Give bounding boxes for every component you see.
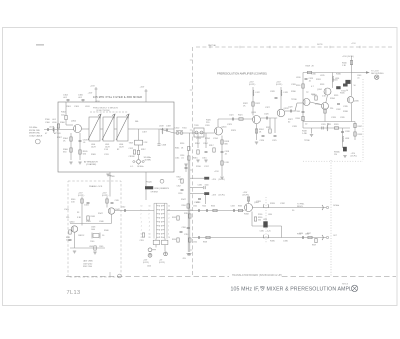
svg-text:C345: C345	[260, 231, 264, 233]
svg-text:R322: R322	[256, 103, 261, 105]
svg-text:C351: C351	[184, 234, 190, 236]
svg-text:C325: C325	[272, 140, 277, 142]
svg-text:C320: C320	[205, 125, 210, 127]
svg-text:LAST USED: LAST USED	[83, 260, 94, 263]
svg-text:C352: C352	[193, 206, 197, 208]
svg-text:C328: C328	[292, 126, 298, 128]
svg-text:C330: C330	[311, 74, 317, 76]
svg-text:R301: R301	[66, 106, 72, 108]
svg-text:R350: R350	[182, 205, 186, 207]
svg-text:R330: R330	[296, 85, 300, 87]
svg-text:R346: R346	[104, 230, 109, 232]
svg-text:(3 SECTIONS): (3 SECTIONS)	[96, 110, 110, 112]
svg-text:ATTENUATOR: ATTENUATOR	[84, 160, 98, 163]
svg-text:5: 5	[168, 234, 169, 236]
svg-text:C341: C341	[84, 205, 90, 207]
svg-text:10: 10	[168, 237, 170, 239]
svg-text:33: 33	[77, 212, 80, 214]
svg-text:C314: C314	[203, 143, 208, 145]
svg-text:L338: L338	[345, 138, 349, 140]
svg-text:+15V: +15V	[140, 87, 145, 89]
svg-text:50: 50	[354, 85, 356, 87]
svg-text:R330: R330	[291, 91, 297, 93]
svg-text:10: 10	[149, 206, 151, 208]
svg-text:REV A: REV A	[342, 283, 349, 286]
svg-text:220: 220	[330, 108, 333, 110]
svg-text:C327: C327	[265, 107, 271, 109]
svg-text:R348: R348	[91, 216, 95, 218]
svg-text:L330: L330	[296, 77, 301, 79]
svg-text:C334: C334	[296, 111, 300, 113]
svg-text:COAX CABLE: COAX CABLE	[29, 134, 43, 137]
svg-text:C328: C328	[270, 91, 275, 93]
svg-text:R315: R315	[193, 158, 198, 160]
svg-text:(DCPL): (DCPL)	[249, 84, 256, 86]
svg-text:FROM 2ND: FROM 2ND	[29, 130, 40, 132]
svg-text:(DCPL): (DCPL)	[243, 195, 250, 197]
svg-text:TP: TP	[306, 92, 309, 94]
svg-text:(DCPL): (DCPL)	[219, 195, 226, 197]
svg-text:(DCPL): (DCPL)	[159, 262, 165, 264]
svg-text:+15V: +15V	[212, 179, 217, 181]
svg-text:ATTEN: ATTEN	[54, 132, 61, 135]
svg-text:R345: R345	[340, 93, 345, 95]
svg-text:L308: L308	[159, 126, 164, 128]
svg-text:1K: 1K	[243, 106, 246, 108]
svg-text:R316: R316	[180, 143, 184, 145]
svg-text:R337: R337	[358, 126, 363, 128]
svg-text:10: 10	[102, 235, 105, 237]
svg-text:R358: R358	[203, 242, 207, 244]
svg-text:2: 2	[141, 214, 142, 216]
svg-text:.001: .001	[78, 97, 83, 99]
svg-text:C326: C326	[264, 114, 269, 116]
svg-text:Q302: Q302	[71, 121, 77, 123]
svg-text:C317: C317	[204, 166, 210, 168]
svg-text:.2: .2	[149, 226, 150, 228]
svg-text:T308: T308	[129, 143, 133, 145]
svg-text:+15V: +15V	[88, 93, 93, 95]
svg-text:.01: .01	[309, 81, 312, 83]
svg-text:C311: C311	[104, 154, 110, 156]
svg-text:1K: 1K	[259, 132, 262, 134]
svg-text:C316: C316	[180, 155, 184, 157]
svg-text:C307: C307	[142, 132, 148, 134]
svg-text:C324: C324	[260, 140, 265, 142]
svg-text:L318: L318	[225, 162, 229, 164]
svg-text:1.43K: 1.43K	[302, 133, 308, 135]
svg-text:+15V: +15V	[212, 195, 217, 197]
svg-text:R311: R311	[175, 148, 179, 150]
svg-text:2.2K: 2.2K	[144, 142, 149, 144]
svg-text:620: 620	[83, 154, 87, 156]
svg-text:1: 1	[149, 218, 150, 220]
svg-text:1000: 1000	[205, 184, 209, 186]
svg-text:C333: C333	[231, 206, 235, 208]
svg-text:2K: 2K	[312, 66, 315, 68]
svg-text:C354: C354	[193, 242, 197, 244]
svg-text:R359: R359	[312, 245, 316, 247]
svg-text:C342: C342	[121, 207, 125, 209]
svg-text:(DCPL): (DCPL)	[351, 156, 358, 158]
svg-text:.2: .2	[141, 226, 142, 228]
svg-text:T310: T310	[182, 128, 187, 130]
svg-text:(DCPL): (DCPL)	[143, 262, 149, 264]
svg-text:20: 20	[149, 237, 151, 239]
svg-text:RESOL: RESOL	[297, 206, 303, 208]
svg-text:R353: R353	[172, 217, 176, 219]
svg-text:+15V: +15V	[90, 86, 95, 88]
svg-text:R316: R316	[196, 166, 202, 168]
svg-text:.01: .01	[83, 142, 87, 144]
svg-text:Q336: Q336	[354, 101, 359, 103]
svg-text:220: 220	[206, 122, 210, 124]
svg-text:L328: L328	[284, 92, 288, 94]
svg-text:.01: .01	[181, 158, 184, 160]
svg-text:C300: C300	[45, 122, 51, 124]
svg-text:C343: C343	[64, 209, 70, 211]
svg-text:R347: R347	[98, 213, 104, 215]
svg-text:C314: C314	[213, 138, 219, 140]
svg-text:C313: C313	[196, 138, 202, 140]
svg-text:R352: R352	[177, 177, 181, 179]
svg-text:5-25: 5-25	[267, 231, 271, 233]
svg-text:C338: C338	[345, 131, 350, 133]
svg-text:105 MHz XTAL FILTER & 3RD MIXE: 105 MHz XTAL FILTER & 3RD MIXER	[93, 96, 142, 99]
svg-text:C350: C350	[182, 227, 186, 229]
svg-text:R333: R333	[270, 203, 276, 205]
svg-text:1K: 1K	[63, 141, 66, 143]
svg-text:1.5K: 1.5K	[322, 96, 327, 98]
svg-text:NOTE: NOTE	[317, 44, 323, 46]
svg-text:R333: R333	[238, 206, 242, 208]
svg-text:L322: L322	[256, 92, 260, 94]
svg-text:L.O.: L.O.	[130, 166, 134, 168]
svg-text:1000: 1000	[91, 229, 95, 231]
svg-text:R317: R317	[209, 145, 214, 147]
svg-text:T344: T344	[202, 206, 206, 208]
svg-text:R349 Y340: R349 Y340	[83, 266, 92, 268]
svg-text:+15V: +15V	[178, 179, 183, 181]
svg-text:20: 20	[168, 206, 170, 208]
svg-text:P1020: P1020	[146, 182, 153, 184]
svg-text:L330: L330	[263, 219, 267, 221]
svg-text:C308: C308	[162, 145, 167, 147]
svg-text:MIXER & PRERESOLUTION AMPL: MIXER & PRERESOLUTION AMPL	[267, 287, 353, 293]
svg-text:.01: .01	[225, 154, 228, 156]
svg-text:J334: J334	[305, 234, 309, 236]
svg-text:C337: C337	[312, 95, 317, 97]
svg-text:1.3K: 1.3K	[342, 65, 347, 67]
svg-text:(DCPL): (DCPL)	[78, 195, 85, 197]
svg-text:R309: R309	[91, 154, 97, 156]
svg-text:PARTIAL: PARTIAL	[208, 44, 217, 47]
svg-text:.01: .01	[357, 77, 360, 79]
svg-text:50: 50	[149, 234, 151, 236]
svg-text:5.6K: 5.6K	[71, 202, 75, 204]
svg-text:R354: R354	[172, 239, 176, 241]
svg-text:+15V (DCPL): +15V (DCPL)	[342, 56, 354, 58]
svg-text:10: 10	[346, 90, 348, 92]
svg-text:R314: R314	[195, 143, 200, 145]
svg-text:(DCPL): (DCPL)	[102, 195, 109, 197]
svg-text:2: 2	[149, 214, 150, 216]
svg-text:330: 330	[258, 220, 261, 222]
svg-text:R334: R334	[330, 98, 336, 100]
svg-text:5: 5	[149, 210, 150, 212]
svg-text:OF MHZ: OF MHZ	[151, 192, 159, 194]
svg-text:P334: P334	[297, 234, 301, 236]
svg-text:R332: R332	[244, 214, 250, 216]
svg-text:1N4152: 1N4152	[78, 235, 84, 237]
svg-text:C332: C332	[336, 109, 341, 111]
svg-text:C335: C335	[343, 106, 349, 108]
svg-text:62: 62	[288, 122, 291, 124]
svg-text:.5: .5	[149, 222, 150, 224]
svg-text:R331: R331	[316, 79, 322, 81]
svg-text:R338: R338	[343, 111, 349, 113]
svg-text:105 MHz: 105 MHz	[29, 127, 37, 129]
svg-text:R335: R335	[270, 241, 276, 243]
svg-text:R331: R331	[334, 124, 339, 126]
svg-text:4.7: 4.7	[311, 86, 315, 88]
svg-text:1: 1	[141, 218, 142, 220]
svg-text:1.5K: 1.5K	[104, 149, 109, 151]
svg-text:R307: R307	[57, 137, 63, 139]
svg-text:C309: C309	[166, 126, 172, 128]
svg-text:+15V: +15V	[351, 43, 356, 45]
svg-text:+10 MHz: +10 MHz	[144, 160, 152, 162]
svg-text:C311: C311	[175, 158, 179, 160]
svg-text:47: 47	[45, 133, 48, 135]
svg-text:Y340: Y340	[90, 241, 94, 243]
svg-text:5: 5	[141, 210, 142, 212]
svg-text:TP330: TP330	[291, 99, 297, 101]
svg-text:PRERESOLUTION AMPLIFIER (COA: PRERESOLUTION AMPLIFIER (COARSE)	[217, 72, 267, 76]
svg-text:R336: R336	[336, 74, 342, 76]
svg-text:R300: R300	[60, 122, 66, 124]
svg-text:R335: R335	[334, 95, 338, 97]
svg-text:DECOUPLING: DECOUPLING	[371, 73, 384, 75]
svg-text:R333: R333	[320, 84, 324, 86]
svg-text:C336: C336	[283, 241, 289, 243]
svg-text:C350: C350	[178, 193, 182, 195]
svg-text:7L13: 7L13	[67, 290, 81, 296]
svg-text:330: 330	[63, 152, 67, 154]
svg-text:10: 10	[141, 206, 143, 208]
svg-text:R314: R314	[205, 138, 211, 140]
svg-text:10: 10	[305, 124, 308, 126]
svg-text:Q334: Q334	[317, 89, 322, 91]
svg-text:C339: C339	[340, 117, 345, 119]
svg-text:10 MHz: 10 MHz	[333, 205, 339, 207]
svg-text:C303: C303	[74, 106, 80, 108]
svg-text:R334: R334	[296, 118, 300, 120]
svg-text:.5: .5	[141, 222, 142, 224]
svg-text:R329: R329	[306, 66, 311, 68]
svg-text:FREQ SELECT 3 MHz/DIV: FREQ SELECT 3 MHz/DIV	[93, 108, 119, 110]
svg-text:C310: C310	[175, 128, 181, 130]
svg-text:C309: C309	[110, 176, 115, 178]
svg-text:(COARSE): (COARSE)	[86, 163, 96, 166]
svg-text:+15V: +15V	[95, 101, 100, 103]
svg-text:Q326: Q326	[251, 112, 257, 114]
svg-text:10uH: 10uH	[91, 147, 96, 149]
svg-text:C333: C333	[331, 117, 337, 119]
svg-text:RD: RD	[260, 285, 265, 289]
svg-text:C312: C312	[129, 148, 134, 150]
svg-text:C332: C332	[280, 203, 286, 205]
svg-text:1020: 1020	[147, 266, 151, 268]
svg-text:10 MHz: 10 MHz	[137, 166, 144, 168]
svg-text:P330: P330	[258, 214, 262, 216]
svg-text:R356: R356	[211, 206, 215, 208]
svg-text:C323: C323	[227, 124, 233, 126]
svg-text:R323: R323	[231, 130, 237, 132]
svg-text:2: 2	[168, 230, 169, 232]
svg-text:R341: R341	[333, 80, 338, 82]
svg-text:CR308: CR308	[129, 156, 135, 158]
svg-text:FREQ SPAN/DIV: FREQ SPAN/DIV	[155, 187, 170, 190]
svg-text:3.3K: 3.3K	[77, 217, 82, 219]
svg-text:220: 220	[334, 154, 337, 156]
svg-text:(DCPL): (DCPL)	[276, 84, 283, 86]
svg-text:MIXER VIA: MIXER VIA	[29, 132, 40, 135]
svg-text:1: 1	[168, 226, 169, 228]
svg-text:50: 50	[292, 210, 295, 212]
svg-text:SEL: SEL	[135, 121, 140, 123]
svg-text:R347: R347	[181, 199, 187, 201]
svg-text:C349: C349	[99, 246, 103, 248]
svg-text:L335: L335	[320, 75, 325, 77]
svg-text:T320: T320	[194, 125, 199, 127]
svg-text:.1: .1	[141, 230, 142, 232]
svg-text:R312: R312	[141, 149, 146, 151]
svg-text:.1: .1	[168, 214, 169, 216]
svg-text:C346: C346	[198, 184, 202, 186]
svg-text:680: 680	[225, 144, 228, 146]
svg-text:+15V: +15V	[214, 171, 219, 173]
svg-text:C329: C329	[288, 107, 293, 109]
svg-text:C331: C331	[321, 124, 326, 126]
svg-text:82: 82	[117, 149, 120, 151]
svg-text:C346: C346	[99, 221, 104, 223]
svg-text:L349: L349	[89, 246, 93, 248]
svg-text:.2: .2	[168, 218, 169, 220]
svg-text:C353: C353	[140, 240, 144, 242]
svg-text:R321: R321	[238, 115, 243, 117]
svg-text:C345: C345	[115, 200, 119, 202]
svg-text:OUT: OUT	[333, 235, 338, 237]
svg-text:L303: L303	[85, 106, 90, 108]
svg-text:TP336: TP336	[304, 140, 310, 142]
svg-text:L300: L300	[52, 122, 57, 124]
svg-text:J330: J330	[268, 214, 272, 216]
svg-text:TRANSLATOR BOARD (S/N B010100: TRANSLATOR BOARD (S/N B010100 & UP)	[232, 274, 282, 277]
svg-text:(DCPL): (DCPL)	[219, 179, 226, 181]
svg-text:1K: 1K	[181, 148, 184, 150]
svg-text:.5: .5	[168, 222, 169, 224]
svg-text:.1: .1	[149, 230, 150, 232]
svg-text:.001: .001	[63, 97, 68, 99]
svg-text:10uH: 10uH	[119, 147, 124, 149]
svg-text:C349 Q342: C349 Q342	[83, 263, 92, 265]
svg-text:C321: C321	[229, 115, 234, 117]
svg-text:-15V: -15V	[182, 258, 187, 260]
svg-text:C315: C315	[202, 158, 207, 160]
svg-text:R345: R345	[86, 221, 92, 223]
svg-text:C331: C331	[256, 201, 262, 203]
svg-text:R339: R339	[358, 134, 363, 136]
svg-text:Q324: Q324	[222, 127, 228, 129]
svg-text:PHASE LOCK: PHASE LOCK	[89, 185, 103, 188]
svg-text:150: 150	[66, 217, 69, 219]
svg-text:C352: C352	[177, 186, 181, 188]
